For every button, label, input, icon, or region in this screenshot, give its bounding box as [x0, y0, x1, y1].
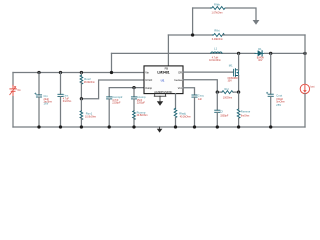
wire drain riser	[238, 53, 240, 69]
node L1 branch junction	[110, 71, 113, 74]
resistor Rcomp	[133, 111, 136, 120]
svg-text:2200pF: 2200pF	[112, 101, 121, 104]
node gnd Ruv1	[80, 125, 83, 128]
node Isense junction	[216, 90, 219, 93]
capacitor Cinx	[58, 73, 63, 128]
svg-text:10.9mOhm: 10.9mOhm	[209, 59, 221, 62]
off-page arrow	[253, 20, 260, 25]
resistor Ruv2	[80, 73, 83, 99]
wire UVLO	[81, 80, 144, 99]
svg-text:28.0kOhm: 28.0kOhm	[84, 81, 95, 84]
svg-text:Vcc: Vcc	[178, 86, 183, 90]
svg-text:D1: D1	[258, 47, 262, 51]
wire source drop	[238, 76, 240, 93]
svg-text:LM3481: LM3481	[157, 71, 169, 75]
current source Iout load	[300, 84, 309, 93]
svg-text:2200pF: 2200pF	[137, 102, 146, 105]
wire ground rail	[13, 126, 305, 128]
svg-text:25V: 25V	[276, 103, 281, 107]
ground IC	[154, 94, 166, 106]
resistor Ruv1	[80, 99, 83, 120]
svg-text:40.2kOhm: 40.2kOhm	[180, 116, 191, 119]
resistor Rfbt	[212, 34, 225, 37]
wire Ruv1 bottom	[80, 118, 82, 127]
svg-text:40V: 40V	[258, 59, 263, 62]
capacitor Cin	[35, 73, 42, 128]
diode D1	[255, 51, 265, 56]
node FB divider junction	[191, 33, 194, 36]
voltage source Vin	[10, 85, 17, 96]
node Cin junction	[37, 71, 40, 74]
wire Vin to L1 riser	[111, 53, 113, 72]
transistor M1	[234, 69, 239, 77]
inductor L1	[211, 52, 222, 54]
wire DR to gate	[183, 71, 233, 73]
resistor Rsl	[217, 91, 238, 94]
svg-text:Rsense: Rsense	[241, 110, 251, 114]
svg-text:6.49kOhm: 6.49kOhm	[212, 38, 223, 41]
svg-text:DR: DR	[178, 70, 182, 74]
wire FB pin riser	[167, 35, 169, 66]
svg-text:1uF: 1uF	[198, 98, 203, 101]
wire FB rail left	[168, 34, 212, 36]
wire top feedback branch riser	[192, 8, 194, 35]
node comp branch junction	[132, 86, 135, 89]
svg-text:30V: 30V	[228, 80, 233, 83]
svg-text:M1: M1	[229, 63, 233, 67]
node gnd Cin	[37, 125, 40, 128]
node gnd Ccomp2	[108, 125, 111, 128]
wire output row	[265, 52, 305, 54]
node Ruv2 top junction	[80, 71, 83, 74]
svg-text:20.5kOhm: 20.5kOhm	[137, 114, 148, 117]
capacitor Cvcc	[192, 95, 197, 127]
svg-text:Cvcc: Cvcc	[198, 94, 205, 98]
wire Rcomp bottom	[133, 118, 135, 127]
wire Comp	[109, 88, 144, 97]
svg-text:UVLO: UVLO	[145, 78, 152, 82]
node Cout junction	[269, 52, 272, 55]
wire Isense	[183, 80, 217, 92]
wire comp branch riser	[133, 88, 135, 97]
IC U1 LM3481	[144, 66, 183, 94]
svg-text:Rfbb: Rfbb	[214, 3, 220, 7]
svg-text:Rfbt: Rfbt	[214, 29, 219, 33]
svg-text:Comp: Comp	[145, 86, 152, 90]
svg-text:Iout: Iout	[310, 86, 314, 89]
svg-text:6mOhm: 6mOhm	[63, 100, 72, 103]
wire Rfbb row right	[226, 8, 256, 20]
svg-text:8mOhm: 8mOhm	[241, 114, 250, 117]
capacitor Ccomp	[131, 97, 136, 111]
svg-text:U1: U1	[161, 78, 165, 82]
node gnd Rsense	[237, 125, 240, 128]
wire source column top	[12, 73, 14, 86]
svg-text:10.0kOhm: 10.0kOhm	[85, 116, 96, 119]
ground rail symbol	[157, 127, 163, 133]
wire Vin rail	[13, 72, 144, 74]
svg-text:1.07kOhm: 1.07kOhm	[211, 12, 222, 15]
node gnd Cinx	[59, 125, 62, 128]
svg-text:AGNDPGNDNC: AGNDPGNDNC	[154, 91, 172, 94]
resistor Rfbb	[211, 7, 227, 10]
svg-text:Vin: Vin	[17, 89, 21, 92]
wire Vcc	[183, 88, 195, 95]
svg-text:Cf: Cf	[220, 110, 223, 114]
svg-text:FB: FB	[165, 66, 169, 70]
node gnd Cout	[269, 125, 272, 128]
node Cinx junction	[59, 71, 62, 74]
svg-text:L1: L1	[214, 46, 218, 50]
node UVLO divider junction	[80, 97, 83, 100]
node gnd Rfadj	[174, 125, 177, 128]
node gnd Cvcc	[193, 125, 196, 128]
resistor Rsense	[237, 92, 240, 127]
node switch junction	[237, 52, 240, 55]
capacitor Ccomp2	[107, 97, 112, 127]
node gnd Rcomp	[132, 125, 135, 128]
svg-text:16V: 16V	[44, 102, 49, 106]
capacitor Cout	[266, 53, 273, 127]
wire Rfbb row left	[193, 7, 211, 9]
wire Vout right column top	[304, 35, 306, 84]
svg-text:Vin: Vin	[145, 70, 149, 74]
wire L1 row	[112, 52, 256, 54]
svg-text:3300pF: 3300pF	[220, 114, 229, 117]
resistor Rfadj	[174, 94, 177, 127]
svg-text:Isense: Isense	[174, 78, 182, 82]
svg-text:100Ohm: 100Ohm	[223, 96, 232, 99]
node Vout junction	[303, 52, 306, 55]
node gnd Cf	[216, 125, 219, 128]
wire source column bottom	[12, 97, 14, 127]
wire FB rail right	[223, 34, 305, 36]
svg-text:Rsl: Rsl	[224, 87, 228, 91]
capacitor Cf	[215, 92, 220, 127]
node Rsense top junction	[237, 90, 240, 93]
wire Vout right column bottom	[304, 94, 306, 128]
